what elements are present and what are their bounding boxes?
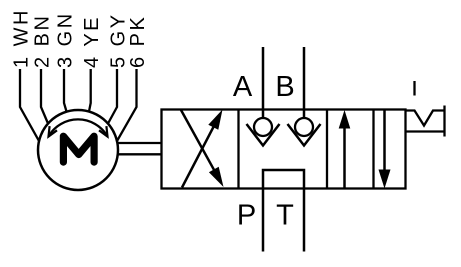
svg-text:A: A [233, 71, 253, 103]
svg-text:4 YE: 4 YE [81, 15, 103, 68]
svg-text:B: B [275, 71, 294, 103]
svg-text:1 WH: 1 WH [10, 8, 32, 68]
svg-text:3 GN: 3 GN [54, 11, 76, 68]
svg-text:P: P [237, 200, 256, 232]
svg-text:T: T [276, 199, 294, 231]
svg-text:6 PK: 6 PK [127, 15, 149, 68]
svg-text:2 BN: 2 BN [31, 14, 53, 68]
